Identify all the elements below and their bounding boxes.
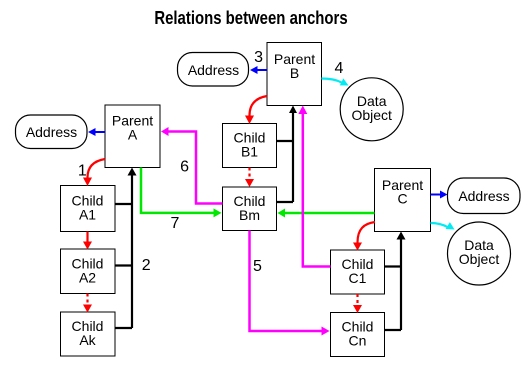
svg-text:B1: B1: [241, 144, 258, 160]
red arrow Parent B to Child B1: [245, 96, 267, 124]
svg-text:A2: A2: [79, 270, 96, 286]
svg-text:B: B: [290, 65, 299, 81]
svg-text:A1: A1: [79, 207, 96, 223]
box Parent B: [267, 43, 322, 106]
red dashed arrow Child A2 to Child Ak: [83, 294, 92, 313]
ellipse Address (right of Parent C): [448, 178, 521, 214]
svg-text:A: A: [128, 127, 138, 143]
red dashed arrow Child C1 to Child Cn: [353, 294, 362, 313]
box Child Cn: [331, 313, 385, 357]
svg-text:Address: Address: [458, 188, 509, 204]
svg-text:2: 2: [142, 257, 151, 274]
svg-text:Cn: Cn: [349, 333, 367, 349]
svg-text:4: 4: [335, 60, 344, 77]
blue arrow Parent B to Address: [250, 66, 267, 74]
svg-text:7: 7: [171, 215, 180, 232]
box Child C1: [331, 250, 385, 294]
svg-text:5: 5: [253, 258, 262, 275]
box Child B1: [223, 124, 277, 168]
cyan arrow Parent C to Data Object: [431, 222, 455, 229]
magenta arrow Child Bm to Child Cn (5): [250, 231, 330, 336]
green arrow Parent C to Child Bm (7): [278, 209, 375, 218]
box Child A2: [61, 249, 116, 294]
green arrow Parent A to Child Bm (7): [141, 168, 222, 218]
magenta arrow Child Bm to Parent A (6): [161, 127, 223, 204]
box Parent A: [105, 105, 160, 168]
ellipse Address (left of Parent B): [178, 53, 249, 87]
svg-text:3: 3: [254, 49, 263, 66]
red arrow Parent A to Child A1 (1): [83, 159, 105, 186]
red arrow Child A1 to Child A2: [83, 232, 92, 250]
red dashed arrow Child B1 to Child Bm: [245, 168, 254, 188]
black bracket children C to Parent C: [385, 232, 406, 331]
svg-text:1: 1: [78, 163, 87, 180]
box Parent C: [375, 169, 431, 232]
ellipse Address (left of Parent A): [16, 115, 88, 149]
svg-text:Address: Address: [26, 124, 77, 140]
svg-text:C: C: [397, 191, 407, 207]
cyan arrow Parent B to Data Object: [322, 78, 349, 85]
svg-text:Object: Object: [351, 107, 392, 123]
black bracket children A to Parent A (2): [115, 168, 137, 329]
svg-text:Address: Address: [188, 62, 239, 78]
magenta arrow Child C1 to Parent B: [298, 106, 330, 267]
svg-text:Ak: Ak: [79, 332, 96, 348]
svg-text:Object: Object: [459, 251, 500, 267]
svg-text:Bm: Bm: [239, 207, 260, 223]
svg-text:Relations between anchors: Relations between anchors: [154, 8, 347, 29]
box Child Ak: [61, 312, 116, 356]
circle Data Object (right of Parent B): [340, 78, 403, 141]
red arrow Parent C to Child C1: [353, 222, 375, 251]
circle Data Object (right of Parent C): [448, 222, 511, 285]
black bracket children B to Parent B: [277, 106, 298, 203]
blue arrow Parent C to Address: [431, 191, 448, 199]
svg-text:6: 6: [180, 158, 189, 175]
box Child A1: [61, 186, 116, 232]
svg-text:C1: C1: [349, 270, 367, 286]
blue arrow Parent A to Address: [88, 128, 105, 136]
box Child Bm: [223, 187, 277, 231]
